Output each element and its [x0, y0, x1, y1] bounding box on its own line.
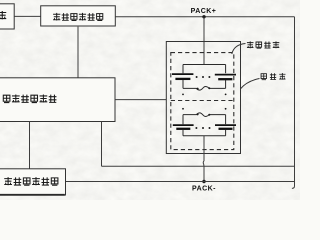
box 第二可控开关: [41, 6, 116, 26]
wire lower bus with hop over PACK- wire: [102, 165, 295, 167]
box 第一电流采样 (cut off at left edge): [0, 169, 66, 195]
module top bus with break symbol: [183, 113, 226, 117]
wire box2 down to CMU: [77, 27, 79, 78]
ellipsis dots upper module: [196, 76, 211, 78]
top bus wire to right side: [115, 16, 294, 18]
wire CMU bottom right vertical: [101, 122, 103, 167]
cell B3 left: [182, 115, 184, 125]
vertical ellipsis between modules: [182, 94, 226, 110]
svg-text:PACK+: PACK+: [191, 8, 217, 15]
label 电池组 with leader line: [241, 79, 260, 89]
cell B4 right: [225, 115, 227, 125]
label 温控装置 with leader line: [232, 44, 246, 55]
node PACK- junction dot: [202, 180, 205, 183]
text 第一电流采样: [4, 177, 58, 185]
module bottom bus: [183, 135, 226, 137]
wire module bottom to PACK-: [202, 136, 205, 182]
dashed box 温控装置: [171, 53, 234, 150]
module bottom bus with break symbol: [183, 87, 226, 91]
box 电池组 battery pack: [166, 42, 240, 154]
node PACK+ junction dot: [202, 15, 205, 18]
svg-text:PACK-: PACK-: [192, 186, 216, 193]
cell B2 right: [225, 65, 227, 74]
wire CMU bottom to current sampling box: [29, 122, 31, 169]
box 控制管理单元 (cut off at left edge): [0, 78, 115, 122]
text 控制管理单元: [3, 94, 56, 102]
dashed divider inside: [171, 100, 234, 102]
module top bus: [183, 64, 226, 66]
cell B1 left: [182, 65, 184, 74]
text 第二可控开关: [53, 13, 103, 21]
lower cell module: [173, 113, 236, 136]
upper cell module: [172, 65, 236, 91]
ellipsis dots lower module: [195, 127, 210, 129]
wire box1 to box2: [14, 15, 41, 17]
wire CMU right to battery box: [115, 99, 167, 101]
wire right vertical: [292, 17, 295, 189]
wire PACK+ down to battery module: [203, 17, 205, 65]
box 第一可控开关 (cut off at left edge): [0, 4, 14, 29]
wire PACK- bus: [66, 181, 295, 183]
